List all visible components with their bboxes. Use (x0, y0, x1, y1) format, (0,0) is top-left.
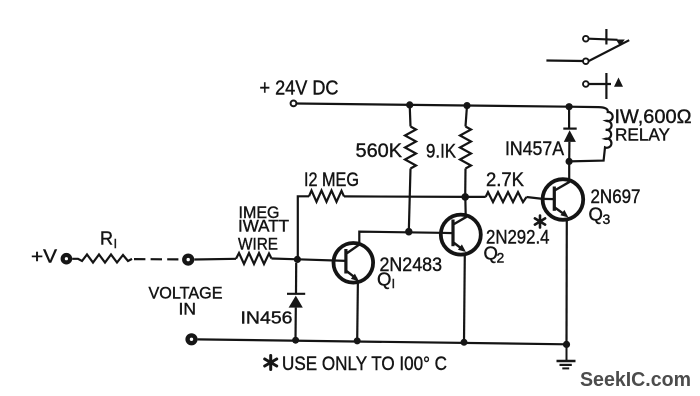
svg-text:+V: +V (31, 247, 57, 267)
svg-text:IN: IN (179, 300, 197, 318)
diode 1N456 (287, 263, 305, 340)
switch arm (589, 40, 629, 61)
wire +24V rail (297, 104, 570, 107)
wire switch pole (546, 59, 582, 62)
wire ground rail (198, 339, 567, 344)
ground (557, 344, 576, 368)
resistor 1MEG (236, 253, 272, 264)
svg-text:+ 24V DC: + 24V DC (260, 78, 339, 100)
wire 12MEG to Q2 collector node (344, 195, 465, 198)
transistor Q3 (543, 179, 584, 220)
note asterisk (265, 356, 277, 370)
wire to 1MEG (194, 258, 236, 261)
svg-text:9.IK: 9.IK (426, 141, 456, 163)
junction dot 560K top (406, 101, 413, 108)
svg-text:3: 3 (603, 211, 611, 227)
junction dot ground node (563, 341, 570, 348)
terminal input left (donut) (63, 255, 70, 262)
svg-text:I2 MEG: I2 MEG (304, 170, 359, 191)
wire 1MEG to node (272, 257, 298, 260)
wire Q3 collector (568, 161, 570, 181)
svg-text:Q: Q (377, 269, 391, 290)
wire Q2 emitter (463, 254, 466, 342)
svg-text:IWATT: IWATT (238, 218, 289, 236)
wire switch lower contact (589, 83, 611, 85)
relay coil (569, 107, 613, 162)
switch contact top (583, 36, 589, 42)
resistor 12MEG (298, 191, 344, 260)
transistor Q2 (440, 215, 481, 255)
svg-text:560K: 560K (356, 140, 403, 162)
junction dot relay/diode/Q3 top (566, 103, 573, 110)
resistor 560K (405, 105, 416, 232)
junction dot input node (294, 256, 301, 263)
junction dot Q1 emitter bottom (354, 337, 361, 344)
wire switch top contact (589, 39, 618, 40)
switch lower wedge (614, 78, 623, 87)
wire Q1 collector to Q2 base (359, 232, 440, 244)
junction dot relay bottom (566, 158, 573, 165)
marker asterisk at Q3 (535, 216, 545, 228)
terminal +24V (open circle) (291, 101, 297, 107)
svg-text:USE ONLY TO I00° C: USE ONLY TO I00° C (282, 354, 447, 375)
svg-text:I: I (114, 236, 118, 251)
wire Q2 collector (464, 197, 467, 216)
junction dot 560K bottom (405, 228, 413, 236)
switch top contact wedge (616, 40, 625, 47)
junction dot 1N456 bottom (292, 337, 299, 344)
wire dashed input (134, 258, 178, 260)
svg-text:IN456: IN456 (241, 308, 293, 328)
svg-text:IN457A: IN457A (505, 139, 564, 160)
switch pole contact (583, 58, 589, 64)
terminal bottom left (donut) (188, 335, 196, 343)
svg-text:Q: Q (589, 204, 603, 225)
svg-text:I: I (392, 276, 396, 291)
svg-text:RELAY: RELAY (615, 124, 670, 144)
wire Q1 emitter (356, 281, 359, 340)
resistor 2.7K (465, 192, 543, 202)
switch linkage dashed (605, 29, 607, 45)
wire Q3 emitter (565, 219, 567, 344)
transistor Q1 (334, 243, 374, 283)
svg-text:R: R (100, 229, 113, 249)
svg-text:2.7K: 2.7K (486, 170, 524, 191)
junction dot 9.1K top (463, 102, 470, 109)
svg-text:SeekIC.com: SeekIC.com (580, 368, 691, 391)
terminal input right (donut) (184, 256, 192, 264)
wire node to Q1 base (298, 259, 346, 261)
resistor 9.1K (460, 106, 471, 197)
svg-text:WIRE: WIRE (238, 236, 278, 254)
switch contact lower (583, 81, 589, 87)
svg-text:2: 2 (497, 250, 505, 266)
diode 1N457A (563, 107, 576, 162)
junction dot Q2 collector node (461, 193, 469, 201)
resistor R1 (72, 255, 132, 263)
junction dot Q2 emitter bottom (461, 339, 468, 346)
